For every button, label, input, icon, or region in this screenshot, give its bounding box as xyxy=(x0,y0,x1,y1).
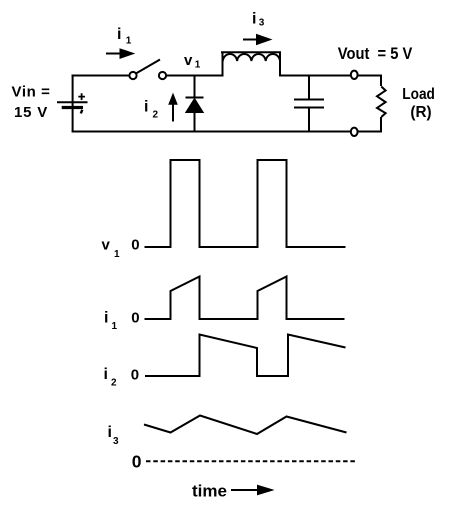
svg-text:3: 3 xyxy=(113,436,119,447)
load resistor R upper lead xyxy=(380,75,382,87)
svg-text:0: 0 xyxy=(131,237,139,254)
svg-text:i: i xyxy=(144,99,148,116)
battery minus tick xyxy=(81,110,83,114)
inductor L1 top bar xyxy=(221,51,281,53)
svg-text:1: 1 xyxy=(195,60,201,71)
time arrow shaft xyxy=(231,489,260,491)
load resistor R zigzag xyxy=(377,87,386,118)
svg-text:(R): (R) xyxy=(410,104,431,121)
diode D1 cathode bar xyxy=(186,97,204,99)
svg-text:2: 2 xyxy=(111,378,117,389)
battery plus sign xyxy=(78,93,85,100)
svg-text:time: time xyxy=(192,482,227,501)
svg-text:2: 2 xyxy=(153,110,159,121)
battery Vin short plate xyxy=(62,106,83,109)
svg-text:Vin =: Vin = xyxy=(12,84,51,101)
waveform v1 trace xyxy=(145,160,346,247)
i1 arrowhead xyxy=(120,48,136,59)
svg-text:i: i xyxy=(108,424,112,441)
waveform i2 trace xyxy=(145,335,346,377)
svg-text:1: 1 xyxy=(114,249,120,260)
switch S1 right contact xyxy=(159,72,166,79)
load resistor R lower lead xyxy=(380,117,382,133)
inductor L1 coil arcs xyxy=(223,54,280,61)
svg-text:v: v xyxy=(184,52,193,69)
svg-text:i: i xyxy=(104,310,108,327)
diode D1 lead upper xyxy=(194,76,196,99)
i3 arrow shaft xyxy=(243,39,260,41)
battery Vin vertical lead xyxy=(72,75,74,133)
capacitor C1 top plate xyxy=(294,99,324,101)
waveform i3 trace xyxy=(144,416,347,435)
svg-text:Load: Load xyxy=(402,86,435,103)
svg-text:0: 0 xyxy=(131,367,139,384)
switch S1 blade xyxy=(136,60,160,74)
inductor L1 right riser xyxy=(279,52,281,76)
inductor L1 left riser xyxy=(222,52,224,76)
wire battery top to switch xyxy=(72,75,130,77)
switch S1 left contact xyxy=(129,72,136,79)
i3 arrowhead xyxy=(256,34,273,46)
svg-text:v: v xyxy=(102,237,111,254)
wire load bottom to terminal xyxy=(358,131,382,133)
svg-text:15 V: 15 V xyxy=(14,104,48,121)
svg-text:Vout = 5 V: Vout = 5 V xyxy=(338,44,413,63)
output terminal top xyxy=(351,71,358,79)
time arrowhead xyxy=(257,485,275,496)
zero axis dashed line xyxy=(146,460,356,462)
svg-text:0: 0 xyxy=(131,310,139,327)
diode D1 triangle xyxy=(186,99,204,113)
wire terminal to load top xyxy=(358,75,382,77)
wire inductor to output terminal xyxy=(279,75,350,77)
wire switch to inductor (node v1) xyxy=(166,75,223,77)
capacitor C1 upper lead xyxy=(308,75,310,100)
wire bottom rail xyxy=(72,131,351,133)
svg-text:1: 1 xyxy=(126,35,132,46)
diode D1 lead lower xyxy=(194,113,196,133)
i2 arrowhead xyxy=(168,93,178,105)
capacitor C1 bottom plate xyxy=(294,107,324,109)
capacitor C1 lower lead xyxy=(308,108,310,133)
svg-text:3: 3 xyxy=(259,18,265,29)
svg-text:i: i xyxy=(252,11,256,28)
svg-text:i: i xyxy=(104,366,108,383)
svg-text:1: 1 xyxy=(112,321,118,332)
svg-text:i: i xyxy=(117,26,121,43)
waveform i1 trace xyxy=(145,277,345,320)
svg-text:0: 0 xyxy=(132,451,142,471)
output terminal bottom xyxy=(351,128,358,136)
battery Vin long plate xyxy=(57,101,88,103)
i1 arrow shaft xyxy=(106,53,124,55)
i2 arrow shaft xyxy=(172,104,174,122)
